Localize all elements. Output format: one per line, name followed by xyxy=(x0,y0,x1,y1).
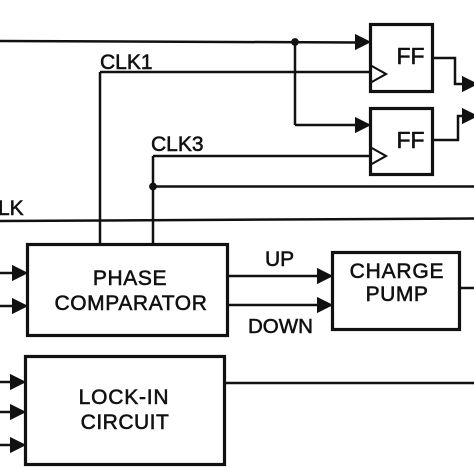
wire horizontal to FF2 D input xyxy=(295,124,358,127)
wire UP xyxy=(228,275,320,278)
wire vertical from junction down xyxy=(294,42,297,125)
svg-text:COMPARATOR: COMPARATOR xyxy=(54,292,207,315)
svg-text:CLK1: CLK1 xyxy=(100,51,153,74)
wire phase comparator input 1 xyxy=(0,272,14,275)
clock chevron FF2 xyxy=(370,147,386,165)
flip-flop FF2 xyxy=(370,109,433,175)
wire CLK3 horizontal to FF2 clock xyxy=(153,155,370,158)
svg-text:LK: LK xyxy=(0,197,24,220)
wire DOWN xyxy=(228,304,320,307)
wire CLK1 vertical to phase comparator xyxy=(99,72,102,244)
wire CLK3 vertical to phase comparator xyxy=(152,156,155,244)
arrowhead UP into charge pump xyxy=(318,270,331,283)
svg-text:CLK3: CLK3 xyxy=(151,133,204,156)
wire lock-in input 2 xyxy=(0,411,12,414)
wire top horizontal to FF1 D input xyxy=(0,41,358,43)
wire lock-in output to right edge xyxy=(224,382,474,385)
arrowhead into FF2 D input xyxy=(356,119,369,132)
svg-text:CHARGE: CHARGE xyxy=(350,260,445,283)
node junction on top wire xyxy=(291,38,299,46)
svg-text:PHASE: PHASE xyxy=(93,267,167,290)
lock-in circuit U3 xyxy=(26,357,225,465)
arrowhead FF2 output at right edge xyxy=(463,110,474,123)
arrowhead into FF1 D input xyxy=(356,36,369,49)
charge pump U2 xyxy=(333,253,460,330)
phase comparator U1 xyxy=(28,245,228,336)
wire CLK1 horizontal to FF1 clock xyxy=(100,71,370,74)
svg-text:FF: FF xyxy=(396,127,424,153)
wire phase comparator input 2 xyxy=(0,305,14,308)
arrowhead DOWN into charge pump xyxy=(318,299,331,312)
wire FF2 output elbow xyxy=(433,116,466,140)
node junction on CLK3 vertical xyxy=(149,183,157,191)
svg-text:DOWN: DOWN xyxy=(248,315,313,338)
svg-text:PUMP: PUMP xyxy=(366,283,429,306)
flip-flop FF1 xyxy=(370,25,433,92)
arrowhead phase comparator input 2 xyxy=(13,300,26,313)
wire lock-in input 3 xyxy=(0,444,12,447)
arrowhead phase comparator input 1 xyxy=(13,267,26,280)
svg-text:UP: UP xyxy=(265,248,294,271)
svg-text:FF: FF xyxy=(396,43,424,69)
arrowhead FF1 output at right edge xyxy=(463,78,474,91)
clock chevron FF1 xyxy=(370,65,386,83)
arrowhead lock-in input 2 xyxy=(11,406,24,419)
svg-text:CIRCUIT: CIRCUIT xyxy=(81,411,170,434)
arrowhead lock-in input 3 xyxy=(11,439,24,452)
wire lock-in input 1 xyxy=(0,381,12,384)
arrowhead lock-in input 1 xyxy=(11,376,24,389)
wire FF1 output elbow xyxy=(433,58,466,84)
wire from CLK3 junction to right edge xyxy=(153,185,474,188)
svg-text:LOCK-IN: LOCK-IN xyxy=(79,386,170,409)
wire full-width horizontal LK net xyxy=(0,219,474,222)
wire charge pump output xyxy=(460,287,474,290)
